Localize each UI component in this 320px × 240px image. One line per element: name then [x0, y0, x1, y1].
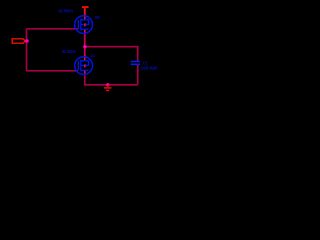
- junction at ground tap: [106, 83, 109, 86]
- junction at output tap: [83, 45, 86, 48]
- wire: drain link between M2 and M1: [84, 33, 86, 58]
- input port symbol: [12, 39, 25, 43]
- wire: input bus vertical from top gate to bottom gate: [26, 29, 28, 71]
- junction at input port / bus: [25, 39, 28, 42]
- svg-text:M2 PMOS: M2 PMOS: [59, 9, 74, 14]
- svg-text:100.0pF: 100.0pF: [141, 65, 159, 70]
- wire: output wire to capacitor: [85, 47, 138, 61]
- transistor M2 (PMOS, top): [75, 14, 93, 34]
- power VDD T-bar: [82, 7, 89, 16]
- capacitor C1: [131, 62, 140, 65]
- ground: [104, 85, 112, 90]
- svg-text:M1 NMOS: M1 NMOS: [62, 49, 76, 54]
- transistor M1 (NMOS, bottom): [75, 55, 93, 75]
- wire: gate wire to M1 (bottom): [27, 70, 79, 72]
- wire: capacitor lower lead down to ground rail: [137, 65, 139, 85]
- wire: gate wire to M2 (top): [27, 28, 79, 30]
- svg-text:D2: D2: [91, 53, 96, 58]
- wire: bottom ground rail: [85, 75, 138, 85]
